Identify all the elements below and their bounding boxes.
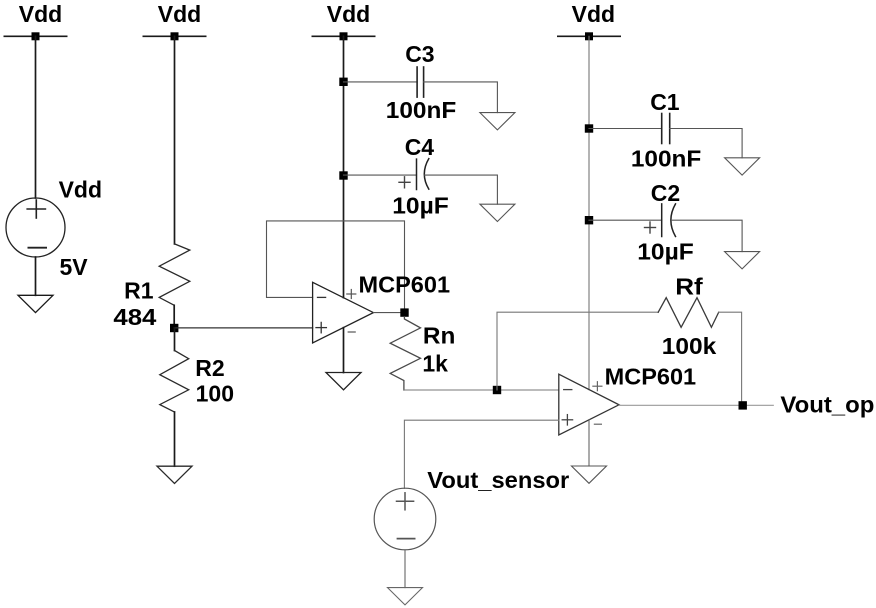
svg-text:C2: C2 (651, 180, 680, 206)
svg-text:R1: R1 (124, 277, 154, 303)
power symbol Vdd (net 2) (143, 1, 205, 40)
svg-text:100: 100 (196, 381, 234, 407)
svg-text:Vout_op: Vout_op (780, 392, 874, 418)
svg-text:1k: 1k (422, 351, 448, 377)
ground C3 (480, 113, 515, 130)
wire V1 minus to ground (35, 257, 37, 295)
node U1 output junction (400, 308, 408, 316)
svg-text:Vout_sensor: Vout_sensor (427, 467, 569, 493)
svg-text:Vdd: Vdd (572, 1, 615, 27)
voltage source V1 Vdd 5V (6, 176, 102, 280)
svg-text:R2: R2 (195, 355, 224, 381)
svg-text:C3: C3 (405, 41, 434, 67)
wire C3 to ground (424, 82, 498, 113)
node C3 junction (339, 78, 347, 86)
wire junction up to feedback Rf (497, 312, 658, 390)
capacitor C2 10uF polarized (637, 180, 694, 264)
wire C4 to ground (425, 175, 498, 204)
svg-text:10µF: 10µF (392, 193, 449, 219)
resistor R1 484 (113, 244, 189, 330)
power symbol Vdd (net 3) (312, 1, 374, 40)
wire node to C4 (344, 174, 417, 176)
wire U2 negative power to ground (588, 420, 590, 466)
wire node to C1 (589, 128, 662, 130)
wire Rn to U2 minus input (404, 389, 559, 391)
svg-text:100k: 100k (662, 333, 717, 359)
op-amp U1 MCP601 (313, 272, 451, 344)
node C1 junction (585, 124, 593, 132)
svg-text:MCP601: MCP601 (359, 272, 451, 298)
wire C2 to ground (672, 220, 743, 251)
capacitor C1 100nF (631, 89, 702, 171)
svg-text:10µF: 10µF (637, 238, 694, 264)
resistor Rn 1k (390, 317, 455, 390)
node Vout_op junction (739, 401, 747, 409)
wire feedback loop U1 output to minus input (267, 221, 405, 313)
wire Vdd to R1 (174, 36, 176, 244)
wire U1 output (373, 312, 404, 314)
node C4 junction (339, 171, 347, 179)
svg-text:Rf: Rf (675, 273, 703, 299)
capacitor C3 100nF (386, 41, 457, 123)
wire Vout_sensor source to U2 plus input (404, 420, 558, 488)
svg-text:Vdd: Vdd (327, 1, 370, 27)
ground under U1 (326, 373, 361, 390)
svg-text:484: 484 (113, 304, 156, 330)
ground C4 (480, 204, 515, 221)
wire divider node to op-amp U1 plus input (174, 327, 312, 329)
wire Vout_sensor to ground (404, 550, 406, 588)
power symbol Vdd (net 1) (4, 1, 66, 40)
ground under U2 (572, 466, 607, 483)
power symbol Vdd (net 4) (558, 1, 620, 40)
svg-text:Vdd: Vdd (19, 1, 62, 27)
op-amp U2 MCP601 (559, 364, 697, 435)
ground C2 (725, 252, 760, 269)
wire Rf to output node (719, 312, 742, 405)
svg-text:100nF: 100nF (631, 145, 702, 171)
wire U1 negative power to ground (343, 328, 345, 373)
svg-text:Vdd: Vdd (59, 176, 102, 202)
ground under Vout_sensor (388, 588, 423, 605)
wire node to C3 (344, 81, 418, 83)
svg-text:Vdd: Vdd (158, 1, 201, 27)
wire node to R2 (174, 328, 176, 351)
wire Vdd rail to op-amp U2 power (588, 36, 590, 389)
svg-text:5V: 5V (60, 254, 89, 280)
wire Vdd to V1 plus (35, 36, 37, 198)
svg-text:MCP601: MCP601 (605, 364, 697, 390)
svg-text:Rn: Rn (423, 322, 456, 348)
wire U2 output to Vout_op (619, 404, 773, 406)
voltage source Vout_sensor (374, 467, 569, 550)
ground under V1 (18, 295, 53, 312)
ground C1 (725, 158, 760, 175)
ground under R2 (157, 466, 192, 483)
svg-text:C4: C4 (405, 134, 435, 160)
capacitor C4 10uF polarized (392, 134, 449, 219)
wire Vdd rail to op-amp U1 power (343, 36, 345, 297)
node U2 minus input junction (493, 386, 501, 394)
wire node to C2 (589, 219, 662, 221)
resistor R2 100 (160, 351, 234, 413)
wire R1 to node (173, 305, 175, 328)
node R1/R2 divider junction (170, 324, 178, 332)
wire R2 to ground (174, 412, 176, 466)
resistor Rf 100k (658, 273, 719, 359)
node C2 junction (585, 216, 593, 224)
svg-text:C1: C1 (650, 89, 680, 115)
svg-text:100nF: 100nF (386, 97, 457, 123)
wire C1 to ground (670, 129, 742, 158)
